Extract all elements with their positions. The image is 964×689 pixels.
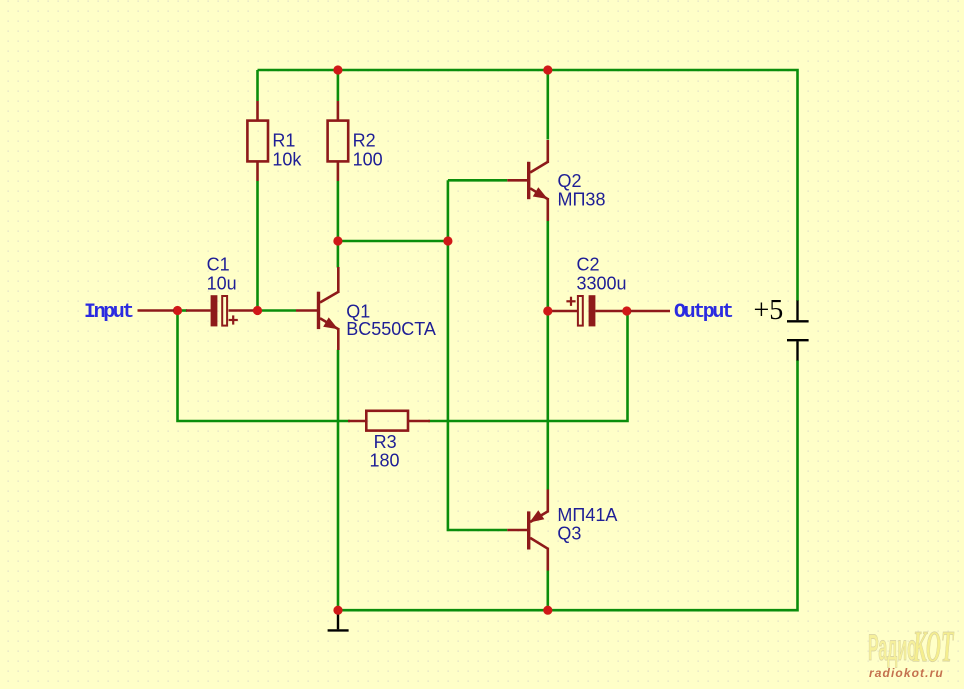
junction: ground rail at Q1 emitter [333, 606, 342, 615]
junction: driver node at R2 bottom [333, 236, 342, 245]
junction: C1 / R1 / Q1 base node [253, 306, 262, 315]
resistor R2 [337, 101, 340, 121]
svg-text:Output: Output [674, 301, 733, 324]
wire: input node down and right to R3 left [178, 311, 351, 422]
transistor Q3 (PNP MP41A) [507, 489, 548, 570]
svg-text:R2: R2 [353, 131, 376, 151]
junction: ground rail at Q3 collector [543, 606, 552, 615]
svg-text:C1: C1 [207, 255, 230, 275]
svg-text:КОТ: КОТ [912, 623, 954, 672]
svg-text:R3: R3 [374, 432, 397, 452]
wire: V- from battery bottom down right rail and along bottom rail [338, 360, 798, 610]
junction: top rail at Q2 collector [543, 65, 552, 74]
pin wire: Output lead [631, 310, 671, 313]
capacitor C1 (polarized, 10u) [186, 295, 254, 326]
svg-text:Q2: Q2 [558, 171, 582, 191]
Q2 emitter arrow [533, 187, 548, 199]
wire: V+ top rail from R1 top across to right rail and down to battery [258, 70, 798, 301]
wire: R3 right to output node column [428, 311, 627, 421]
svg-text:R1: R1 [272, 131, 295, 151]
wire: driver node horizontal (Q1 collector node to base column) [338, 240, 448, 243]
wire: base column x=448 from Q2 base down to Q3 base [448, 180, 507, 530]
wire: Q2 base horizontal [448, 179, 507, 182]
resistor R1 [256, 101, 259, 121]
transistor Q2 (NPN MP38) [507, 140, 548, 221]
C1 plus marker [229, 315, 238, 324]
svg-text:Input: Input [84, 301, 133, 324]
svg-text:3300u: 3300u [577, 273, 627, 293]
battery / +5 supply symbol [787, 301, 809, 361]
wire: R2 top stub [337, 70, 340, 101]
svg-text:МП38: МП38 [558, 189, 606, 209]
svg-text:180: 180 [370, 451, 400, 471]
svg-text:Q3: Q3 [557, 524, 581, 544]
svg-text:100: 100 [353, 149, 383, 169]
junction: base column node [443, 236, 452, 245]
wire: Q1 emitter down to ground rail [337, 350, 340, 610]
svg-text:+5: +5 [754, 295, 784, 326]
watermark RadioKOT logo [868, 623, 955, 680]
svg-text:radiokot.ru: radiokot.ru [869, 666, 944, 680]
wire: Q2 collector stub from top rail [546, 70, 549, 140]
junction: top rail at R2 [333, 65, 342, 74]
ground symbol [328, 612, 349, 630]
wire: Q3 collector down to ground rail [546, 570, 549, 610]
wire: R1 bottom to input node [256, 181, 259, 311]
svg-text:10k: 10k [272, 149, 302, 169]
capacitor C2 (polarized, 3300u) [549, 295, 623, 326]
transistor Q1 (NPN BC550CTA) [296, 267, 338, 350]
wire: R1 top stub [256, 70, 259, 101]
wire: C1 right to Q1 base [253, 309, 296, 312]
Q1 emitter arrow [323, 317, 338, 329]
svg-text:МП41А: МП41А [557, 505, 617, 525]
Q3 emitter arrow (PNP, pointing at base) [529, 510, 544, 522]
C2 plus marker [566, 297, 575, 306]
wire: R2 bottom to driver node [337, 181, 340, 241]
junction: input node [173, 306, 182, 315]
svg-text:10u: 10u [207, 273, 237, 293]
svg-text:Радио: Радио [868, 628, 917, 670]
svg-text:C2: C2 [577, 255, 600, 275]
wire: Q1 collector stub [337, 241, 340, 268]
junction: output node [622, 306, 631, 315]
wire: Q2 emitter down to output C2 node [546, 221, 549, 311]
resistor R3 [348, 420, 366, 423]
pin wire: Input lead [138, 309, 175, 312]
svg-text:BC550CTA: BC550CTA [346, 319, 436, 339]
junction: C2 left / Q2-Q3 emitter node [543, 306, 552, 315]
wire: input node stub to C1 [178, 309, 188, 312]
wire: C2 node down to Q3 emitter [546, 311, 549, 490]
